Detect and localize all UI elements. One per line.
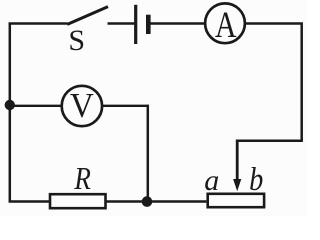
- wire left vertical side: [9, 23, 12, 202]
- wire bottom-left corner to resistor: [9, 200, 50, 202]
- wire voltmeter to middle vertical: [102, 105, 148, 107]
- node junction dot left: [5, 100, 15, 110]
- ammeter U-A: [205, 3, 245, 46]
- wire top-left to switch: [9, 22, 68, 24]
- svg-text:S: S: [68, 24, 85, 57]
- svg-text:A: A: [215, 5, 237, 46]
- svg-text:R: R: [74, 160, 92, 196]
- voltmeter U-V: [62, 86, 102, 126]
- wire ammeter to top-right corner and down: [246, 22, 302, 141]
- switch S: [67, 7, 108, 57]
- rheostat slider arrow: [233, 140, 241, 192]
- battery cell: [136, 5, 149, 44]
- node junction dot bottom: [142, 196, 153, 207]
- wire bottom junction to rheostat: [106, 200, 206, 202]
- wire switch to battery: [108, 22, 135, 24]
- wire battery to ammeter: [151, 22, 206, 24]
- wire middle vertical down: [147, 105, 150, 202]
- resistor R: [50, 160, 106, 208]
- rheostat body: [208, 194, 264, 207]
- wire right horizontal to slider: [237, 139, 303, 142]
- svg-text:V: V: [70, 86, 94, 125]
- wire left junction to voltmeter: [10, 105, 62, 107]
- svg-text:a: a: [204, 164, 219, 197]
